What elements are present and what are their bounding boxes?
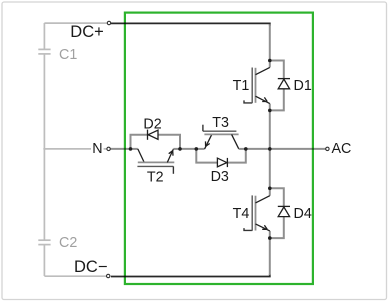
wire T2 cell to T3 cell (180, 148, 196, 150)
junction T4 emitter (268, 236, 272, 240)
svg-text:T2: T2 (147, 170, 164, 186)
svg-text:C1: C1 (59, 47, 77, 63)
wire DC link left bus lower (43, 245, 45, 276)
wire DC- feed (111, 274, 270, 277)
wire DC link left bus middle (43, 54, 45, 240)
transistor T3 (196, 125, 246, 149)
node DC+ terminal (107, 21, 110, 24)
node DC- terminal (107, 274, 110, 277)
node N terminal (107, 147, 110, 150)
wire T3 cell to AC (246, 148, 326, 150)
wire top vertical net (269, 24, 271, 67)
junction on left bus at N (43, 148, 45, 150)
svg-text:DC−: DC− (74, 258, 107, 276)
svg-text:D2: D2 (143, 116, 161, 132)
svg-text:T4: T4 (233, 206, 250, 222)
svg-text:D1: D1 (294, 78, 312, 94)
transistor T1 (244, 67, 270, 103)
wire N bus (light gray) (44, 148, 106, 150)
junction T1 emitter (268, 109, 272, 113)
wire N to T2 cell (111, 148, 131, 150)
junction T2 cell left (129, 147, 133, 151)
svg-text:T3: T3 (212, 115, 229, 131)
diode D3 (196, 149, 246, 167)
wire T4 emitter to DC- (269, 231, 271, 275)
wire DC+ bus (light gray) (44, 22, 107, 24)
junction T2 cell right (178, 147, 182, 151)
wire DC- bus (light gray) (44, 275, 106, 277)
capacitor C1 (38, 49, 50, 54)
transistor T4 (244, 195, 270, 231)
junction T3 cell right (244, 147, 248, 151)
wire T1 emitter to T4 collector (269, 104, 271, 196)
junction T4 collector (268, 187, 272, 191)
diode D2 (131, 130, 181, 149)
inverter bridge highlight box (125, 13, 313, 284)
diode D4 (270, 188, 290, 238)
junction AC midpoint (268, 147, 272, 151)
wire DC link left bus upper (43, 23, 45, 49)
svg-text:DC+: DC+ (70, 23, 103, 41)
junction T1 collector (268, 59, 272, 63)
transistor T2 (131, 149, 181, 174)
svg-text:D3: D3 (211, 169, 229, 185)
junction T3 cell left (195, 147, 199, 151)
node AC terminal (326, 147, 329, 150)
svg-text:AC: AC (332, 141, 352, 157)
svg-text:N: N (92, 141, 102, 157)
svg-text:C2: C2 (59, 235, 77, 251)
diode D1 (270, 61, 290, 111)
capacitor C2 (38, 240, 50, 244)
wire DC+ feed (111, 23, 270, 26)
svg-text:T1: T1 (233, 78, 250, 94)
svg-text:D4: D4 (294, 206, 312, 222)
